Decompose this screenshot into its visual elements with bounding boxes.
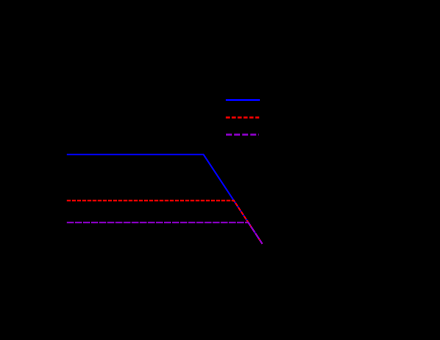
legend blue sample xyxy=(226,99,260,101)
blue open-loop gain curve xyxy=(67,155,262,244)
legend red sample xyxy=(226,117,259,119)
legend violet sample xyxy=(226,134,259,136)
violet dashed closed-loop gain curve xyxy=(67,223,262,244)
red dashed closed-loop gain curve xyxy=(67,201,262,244)
